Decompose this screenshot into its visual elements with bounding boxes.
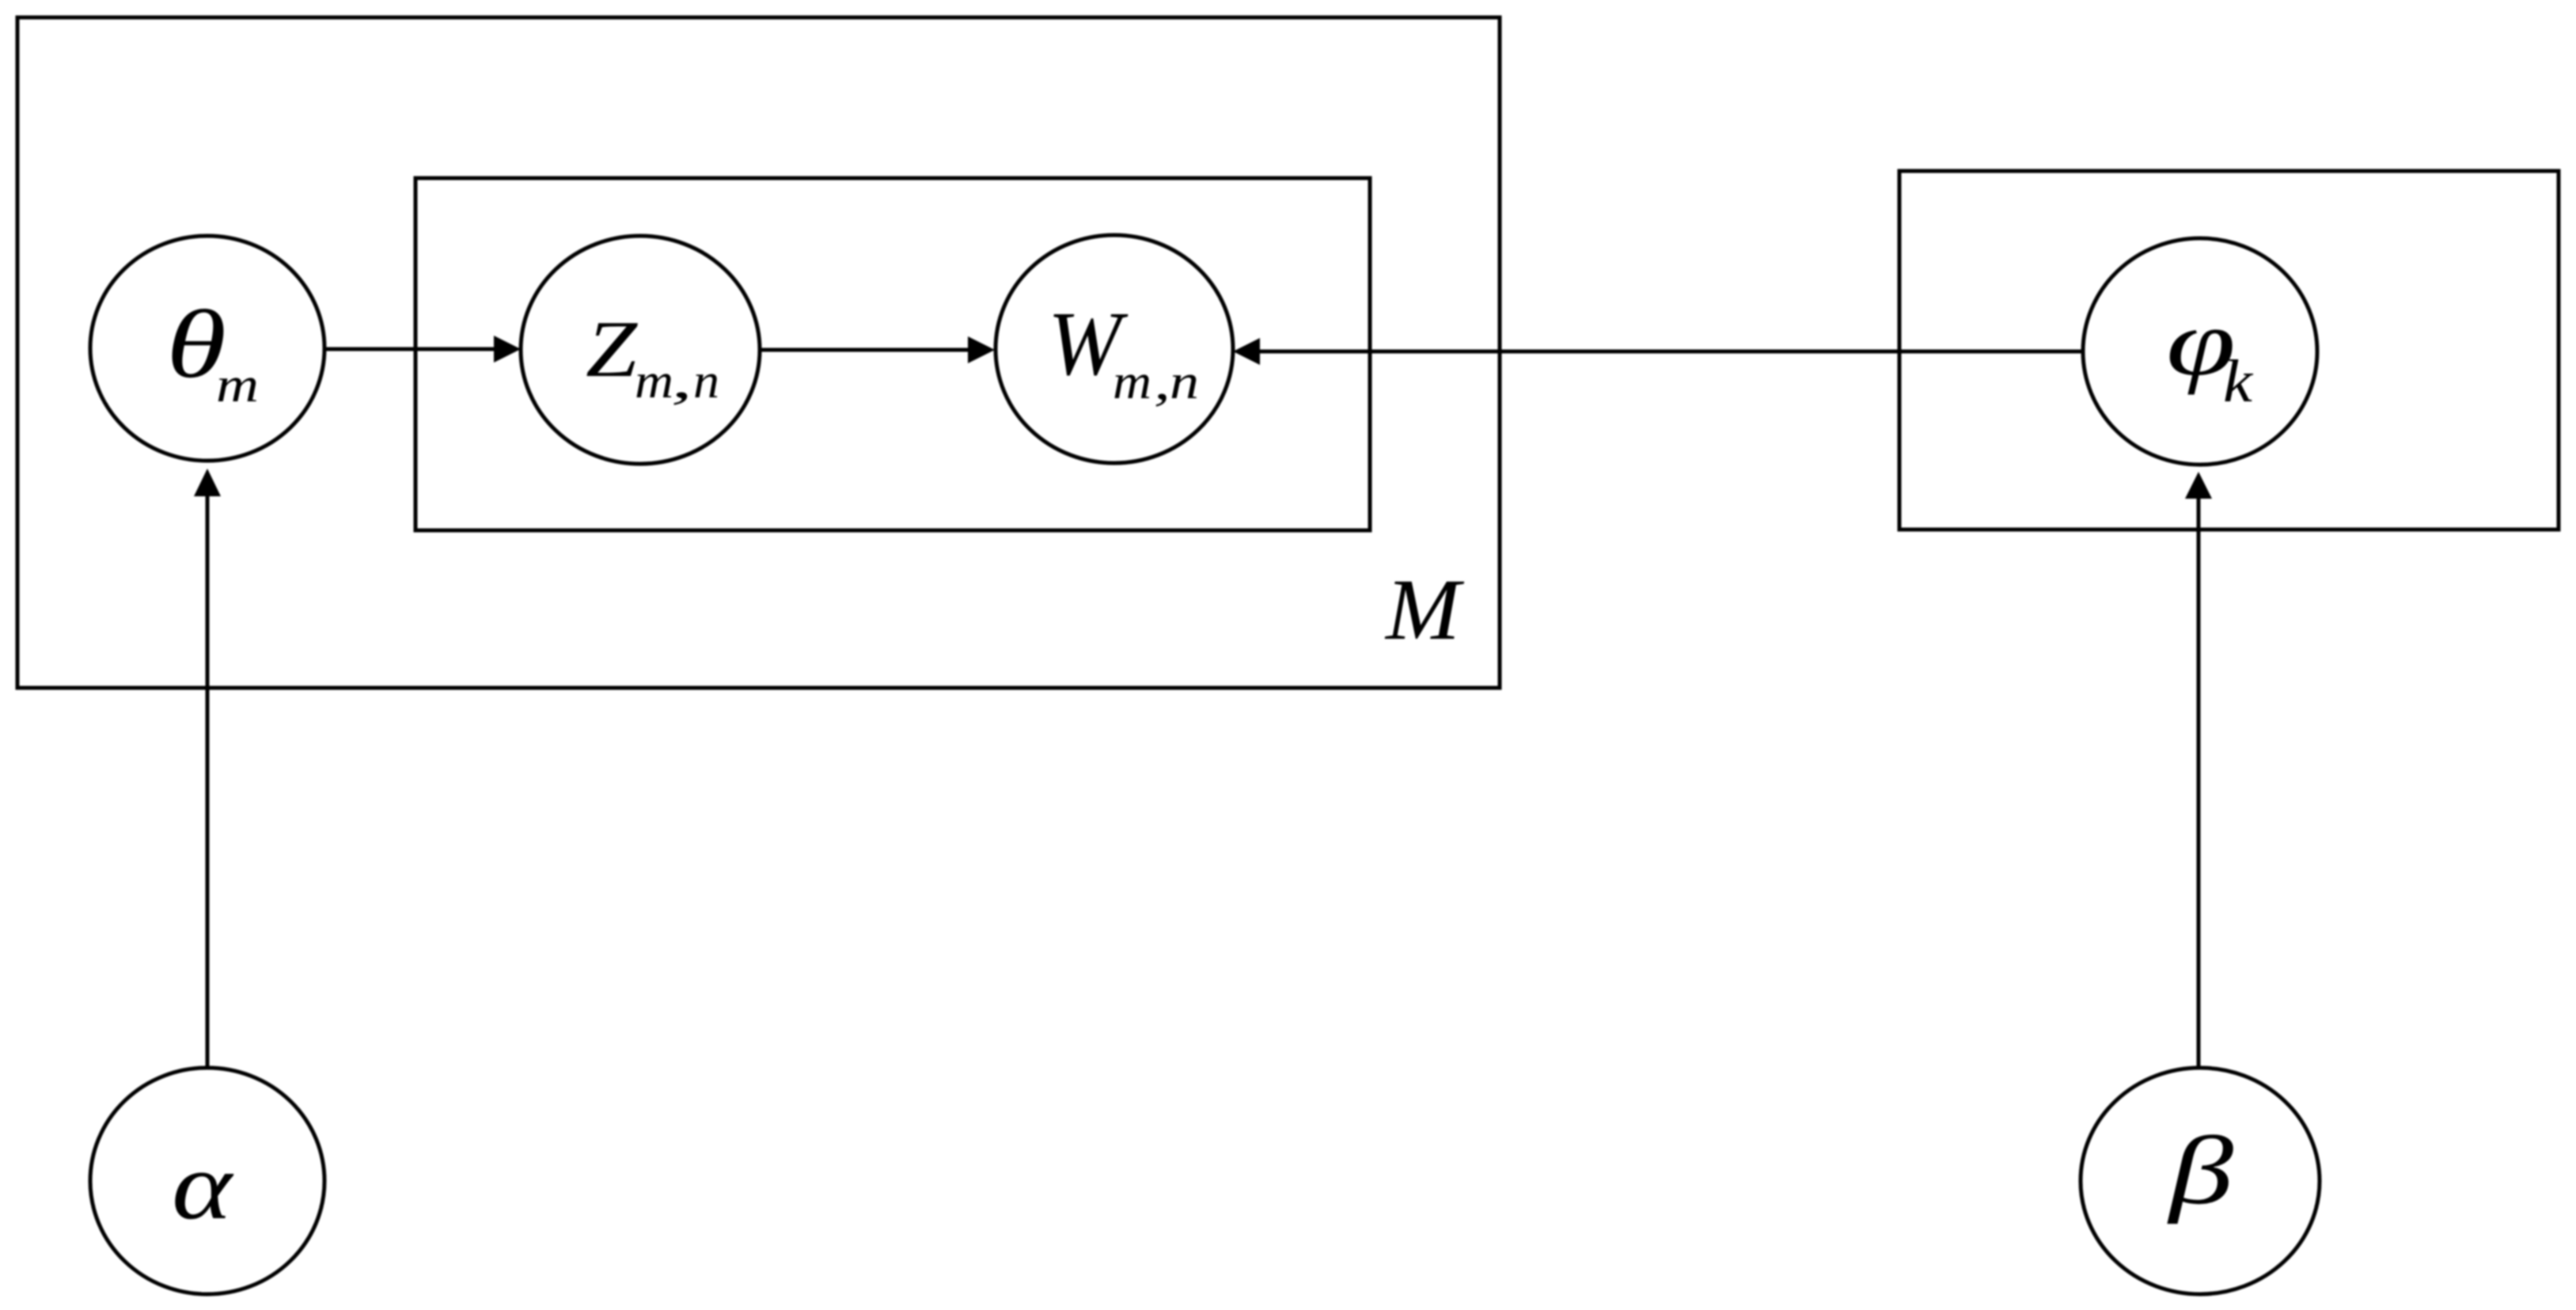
svg-text:n: n: [1170, 355, 1199, 409]
svg-text:M: M: [1384, 561, 1465, 658]
svg-text:n: n: [693, 355, 719, 408]
svg-text:,: ,: [1154, 356, 1170, 410]
svg-text:m: m: [216, 359, 259, 412]
svg-text:m: m: [635, 355, 673, 408]
svg-text:m: m: [1113, 355, 1151, 409]
svg-text:β: β: [2167, 1116, 2234, 1225]
svg-text:,: ,: [671, 355, 692, 408]
svg-text:α: α: [172, 1133, 235, 1240]
svg-text:Z: Z: [586, 305, 638, 394]
svg-text:k: k: [2223, 348, 2253, 415]
